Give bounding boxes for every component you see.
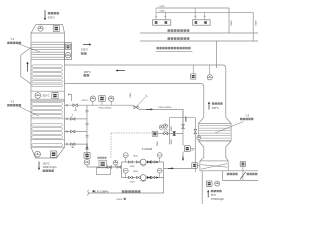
svg-text:DN25: DN25 (160, 10, 166, 12)
svg-text:DN20: DN20 (171, 139, 173, 144)
feed line down to Y-3 (194, 118, 196, 172)
valve on header a (108, 166, 112, 169)
svg-text:235°C: 235°C (212, 107, 219, 110)
DN25 drop from steam pipe (182, 109, 188, 133)
pipe segment cluster (158, 133, 183, 135)
cold air bypass duct (223, 171, 259, 181)
flow arrow down on downcomer (86, 144, 88, 150)
svg-text:Y-2: Y-2 (10, 100, 14, 104)
svg-text:DN50: DN50 (157, 141, 159, 146)
suction split vertical (121, 162, 123, 178)
svg-text:Y-3: Y-3 (245, 115, 249, 118)
svg-text:Y-1: Y-1 (10, 37, 14, 41)
Y-3 bundle box (199, 124, 232, 142)
svg-text:0.8-2.5MPa: 0.8-2.5MPa (95, 190, 109, 194)
drain stub below branch 3 (71, 144, 74, 148)
instrument circle in outlet box (65, 53, 70, 58)
steam pipe to right + flow arrow (139, 108, 183, 110)
instrument box 2 (193, 8, 211, 25)
label PN4.0,DN200 right (159, 107, 173, 109)
valve on header b (117, 166, 121, 169)
recovery water pipe (88, 192, 164, 194)
svg-text:DN25: DN25 (130, 166, 135, 168)
svg-text:142°C: 142°C (43, 163, 50, 166)
steam tap down to Y-3 duct (216, 41, 218, 68)
instrument square at air inlet (206, 181, 212, 187)
svg-text:DN25: DN25 (133, 156, 138, 158)
svg-text:195°C: 195°C (84, 70, 92, 74)
label 中压饱和蒸汽管 (168, 37, 190, 40)
svg-text:DN125: DN125 (82, 100, 88, 102)
MP superheated steam pipe (140, 32, 258, 34)
label P-100A/B (142, 148, 153, 151)
Y-3 tube bundle (hatch) (199, 126, 230, 141)
strainer box (99, 160, 106, 168)
instrument square on drop (184, 146, 195, 153)
instrument square on duct (191, 65, 196, 79)
instrument circle on Y-1 hood (38, 26, 43, 31)
vent pipe on vessel right (69, 93, 72, 101)
branch pipe 3 from Y-2 (65, 143, 88, 146)
bypass damper + motor square (240, 161, 245, 180)
reducer jog + valve (133, 105, 139, 109)
MP saturated steam pipe (140, 40, 258, 42)
label Y-3 空气换热器 + leader (215, 115, 253, 133)
branch pipe 1 from Y-2 (65, 118, 88, 121)
valve w/ handwheel (164, 129, 168, 135)
Y-3 shell converge below bundle (199, 141, 232, 161)
branch pipe 2 from Y-2 (65, 130, 88, 133)
label DN50 (157, 141, 159, 146)
svg-text:105474 kg/h: 105474 kg/h (43, 166, 57, 169)
svg-text:PN4.0,DN200: PN4.0,DN200 (99, 108, 113, 110)
svg-text:DN25: DN25 (160, 6, 166, 8)
label 中压过热蒸汽管 (168, 29, 190, 32)
downcomer pipe (86, 105, 88, 167)
svg-text:DN25: DN25 (133, 171, 138, 173)
svg-text:P-100A/B: P-100A/B (142, 148, 153, 151)
syphon on branch 1 (71, 114, 74, 117)
discharge manifold (164, 162, 196, 193)
instrument square on Y-1 hood (53, 25, 59, 31)
svg-text:DN25: DN25 (255, 19, 257, 25)
instrument circle at air inlet (215, 181, 220, 186)
vessel Y-1 top hood (31, 25, 65, 33)
Y-1 lower tube bundle (stadium bars) (32, 65, 63, 87)
riser DN20 (169, 118, 195, 145)
Y-1 hot air outlet box (65, 43, 72, 60)
label DN25 below pipe (117, 198, 126, 201)
steam pipe from Y-2 drum (65, 104, 134, 106)
air inlet arrow + labels 空气进口 25C 175400kg/h (207, 190, 225, 201)
instrument circle 205C row (35, 93, 41, 99)
svg-text:DN25: DN25 (130, 93, 132, 98)
caption 蒸汽管道及仪表接口示意图 + underline (156, 47, 193, 52)
gauge circle a (159, 125, 163, 129)
vessel Y-1 body outline (31, 33, 65, 101)
instrument square 205C row (52, 93, 58, 99)
instrument square FT (99, 95, 105, 105)
air duct 195C bottom edge (65, 84, 204, 118)
tiny label DN125 (82, 100, 88, 102)
instrument square on Y-2 bottom (50, 151, 57, 158)
air outlet arrow + label 空气出口 235C (208, 102, 223, 110)
pump branch B (122, 168, 164, 184)
drain tank under header (97, 168, 111, 175)
label DN25 on line A (160, 6, 166, 8)
svg-text:25°C: 25°C (211, 194, 217, 197)
label Y-1 热管空预器 + leader (7, 37, 40, 52)
drop continues to drain arrow (182, 134, 184, 162)
control valve (152, 131, 157, 136)
gauge circle b (163, 124, 167, 128)
label 205C (42, 94, 50, 98)
vessel Y-2 body outline (31, 101, 65, 147)
vent branch w/ DN25 (130, 93, 147, 107)
svg-text:335°C: 335°C (48, 16, 55, 20)
valve on steam pipe (73, 104, 78, 107)
air duct 195C top edge (65, 65, 226, 117)
svg-text:DN20: DN20 (171, 126, 173, 131)
Y-1 left air hopper (21, 48, 31, 85)
label 0.8-2.5MPa 蒸汽回收水管 (93, 190, 141, 194)
instrument square on downcomer (84, 152, 90, 158)
instrument circle on Y-2 bottom (35, 151, 41, 157)
instrument box 1 (153, 8, 171, 25)
Y-2 internal divider plates (31, 119, 65, 140)
instrument square at header left (192, 163, 200, 169)
gauge on feed (197, 136, 201, 140)
label Y-2 热管蒸发器 + leader (7, 100, 39, 117)
label PN4.0,DN200 left (99, 108, 113, 110)
svg-text:235°C: 235°C (81, 47, 88, 51)
pipe break squiggle (87, 190, 88, 196)
pipe line B DN25 (156, 12, 253, 41)
flue gas inlet arrow + label 烟气进口 335C (44, 10, 59, 21)
vertical valve on feed (194, 129, 197, 133)
union ticks on downcomer (85, 111, 88, 150)
air flow up arrow in hopper (26, 62, 28, 72)
svg-text:DN25: DN25 (130, 182, 135, 184)
suction header pipe (87, 166, 122, 168)
label 1用1备 (98, 157, 107, 159)
svg-text:175400 kg/h: 175400 kg/h (211, 198, 225, 201)
instrument circle on duct (207, 65, 212, 80)
svg-text:LPT: LPT (191, 150, 194, 152)
instrument circle PI (90, 96, 95, 105)
elbow down DN25 (183, 109, 188, 128)
label 冷风旁通 (227, 173, 238, 175)
gauge on header (113, 160, 118, 167)
svg-text:DN25: DN25 (185, 117, 187, 122)
drain stub under steam pipe (74, 107, 77, 111)
instrument square in outlet box (65, 44, 70, 49)
duct label 195C 空气 + flow arrow (84, 69, 126, 76)
Y-3 bottom header with damper diagonals (200, 161, 228, 171)
hot air outlet arrow + label 235C 空气 (81, 43, 92, 54)
Y-2 heat pipe bundle (stadium bars) (32, 103, 63, 147)
svg-text:DN25: DN25 (117, 199, 123, 201)
label DN25 vertical right A (231, 19, 233, 25)
pump branch A (122, 153, 164, 169)
instrument circle TI (109, 96, 114, 105)
label 电动风门 (247, 173, 258, 175)
Y-2 bottom hood (31, 147, 65, 158)
dark valve on cluster line (173, 132, 176, 136)
label DN25 vertical right B (255, 19, 257, 25)
svg-text:PN4.0,DN200: PN4.0,DN200 (159, 107, 173, 109)
pipe line A DN25 (156, 8, 229, 33)
air inlet duct below header (202, 171, 222, 204)
signal line (dashed) (111, 133, 152, 158)
label DN25 on line B (160, 10, 166, 12)
Y-3 shell flare to bundle (199, 117, 232, 123)
instrument circle on downcomer (84, 159, 90, 165)
Y-1 bottom section plates (31, 91, 65, 99)
svg-text:205°C: 205°C (42, 94, 50, 98)
svg-text:DN25: DN25 (231, 19, 233, 25)
Y-1 upper tube bundle (hatch) (31, 42, 64, 60)
flue gas outlet arrow + labels 142C 105474kg/h 烟气出口 (38, 162, 57, 173)
